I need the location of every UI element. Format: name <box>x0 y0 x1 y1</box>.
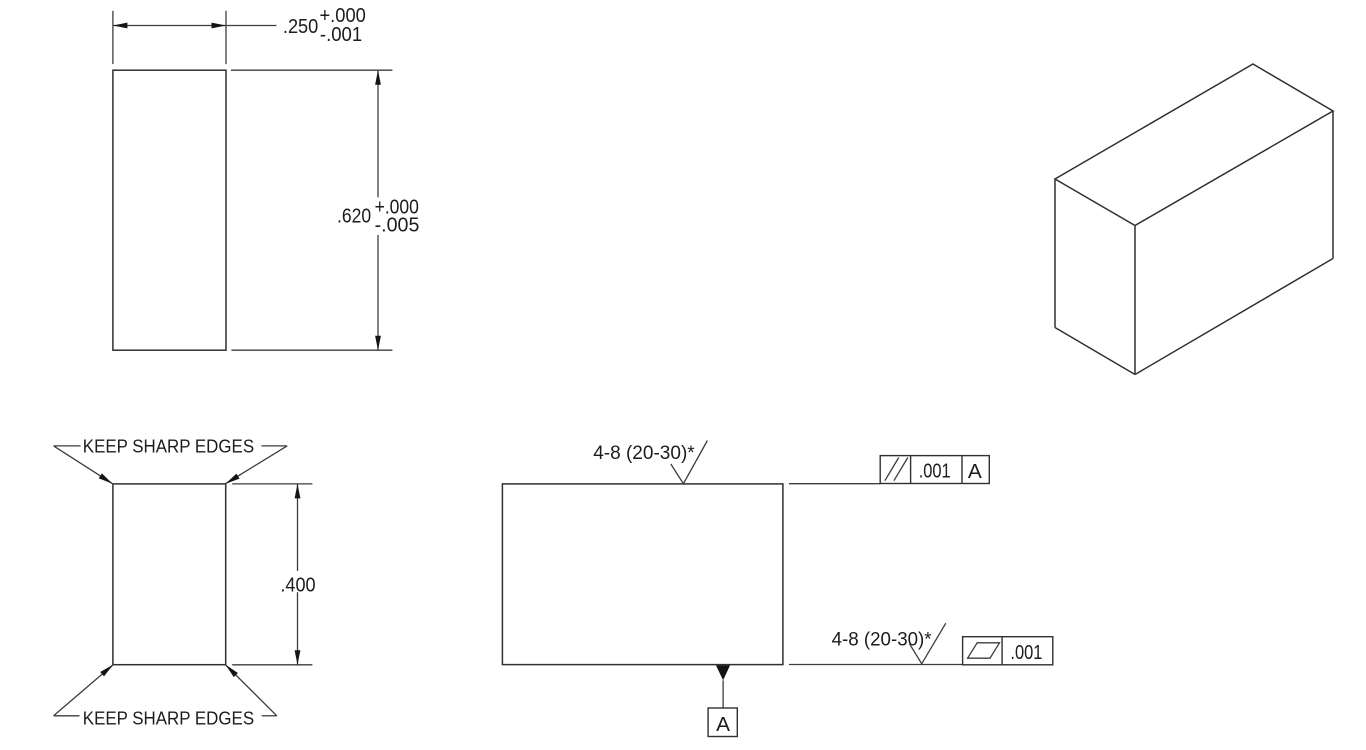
datum feature triangle <box>716 665 730 680</box>
isometric block left vertical edge <box>1054 179 1056 328</box>
arrowhead leader top-right <box>226 474 240 484</box>
arrowhead leader bottom-right <box>226 665 238 677</box>
arrowhead .620 bottom <box>375 336 381 351</box>
svg-text:.620: .620 <box>337 206 371 228</box>
arrowhead .400 top <box>295 484 301 499</box>
isometric block right vertical edge <box>1332 111 1334 259</box>
arrowhead leader bottom-left <box>100 665 113 677</box>
extension line left of .250 dimension <box>112 11 114 64</box>
isometric view block top face <box>1055 64 1333 226</box>
side view rectangle (.620 x .400) <box>502 484 783 665</box>
arrowhead .620 top <box>375 70 381 85</box>
parallelism feature control frame box <box>880 456 989 484</box>
svg-text:-.001: -.001 <box>320 24 362 46</box>
leader bottom-left diagonal <box>54 665 114 716</box>
surface finish symbol top <box>671 441 708 484</box>
bottom view rectangle (.250 x .400) <box>113 484 226 665</box>
svg-text:.400: .400 <box>280 574 315 596</box>
leader bottom-left horizontal <box>54 715 80 717</box>
flatness symbol parallelogram <box>968 643 1000 658</box>
parallelism frame divider 1 <box>910 456 912 484</box>
leader bottom-right diagonal <box>226 665 277 716</box>
isometric block bottom-left edge <box>1055 328 1135 375</box>
leader top-right horizontal <box>261 445 287 447</box>
svg-text:.250: .250 <box>283 16 318 38</box>
svg-text:4-8 (20-30)*: 4-8 (20-30)* <box>832 630 933 651</box>
extension line top of .400 dimension <box>232 483 312 485</box>
arrowhead .250 left <box>113 23 128 29</box>
svg-text:KEEP SHARP EDGES: KEEP SHARP EDGES <box>83 435 254 456</box>
svg-text:KEEP SHARP EDGES: KEEP SHARP EDGES <box>83 708 254 729</box>
extension line right of .250 dimension <box>225 11 227 64</box>
leader top-right diagonal <box>226 446 288 484</box>
arrowhead .400 bottom <box>295 650 301 665</box>
arrowhead leader top-left <box>99 473 113 483</box>
leader top-left horizontal <box>54 445 81 447</box>
isometric block bottom-right edge <box>1135 259 1333 375</box>
dimension line .250 <box>113 25 277 27</box>
flatness frame divider <box>1001 637 1003 665</box>
svg-text:-.005: -.005 <box>375 215 420 237</box>
datum label box <box>708 708 737 737</box>
svg-text:A: A <box>716 714 731 736</box>
extension line top of .620 dimension <box>231 69 393 71</box>
dimension line .400 lower segment <box>297 592 299 665</box>
leader bottom-right horizontal <box>262 715 277 717</box>
extension line bottom of .400 dimension <box>232 664 312 666</box>
svg-text:.001: .001 <box>1010 642 1042 664</box>
leader line to flatness frame <box>789 664 963 666</box>
dimension line .620 upper segment <box>377 70 379 197</box>
parallelism frame divider 2 <box>961 456 963 484</box>
dimension line .620 lower segment <box>377 235 379 350</box>
flatness feature control frame box <box>963 637 1053 665</box>
front view rectangle (.250 x .620) <box>113 70 226 350</box>
svg-text:4-8 (20-30)*: 4-8 (20-30)* <box>593 443 695 464</box>
leader line to parallelism frame <box>789 483 880 485</box>
svg-text:A: A <box>968 461 983 483</box>
dimension line .400 upper segment <box>297 484 299 571</box>
leader top-left diagonal <box>54 446 113 484</box>
extension line bottom of .620 dimension <box>231 349 392 351</box>
isometric block front vertical edge <box>1134 226 1136 375</box>
svg-text:.001: .001 <box>919 461 951 483</box>
parallelism symbol <box>885 458 899 481</box>
surface finish symbol bottom <box>910 623 946 664</box>
arrowhead .250 right <box>212 23 227 29</box>
datum stem <box>722 680 724 708</box>
